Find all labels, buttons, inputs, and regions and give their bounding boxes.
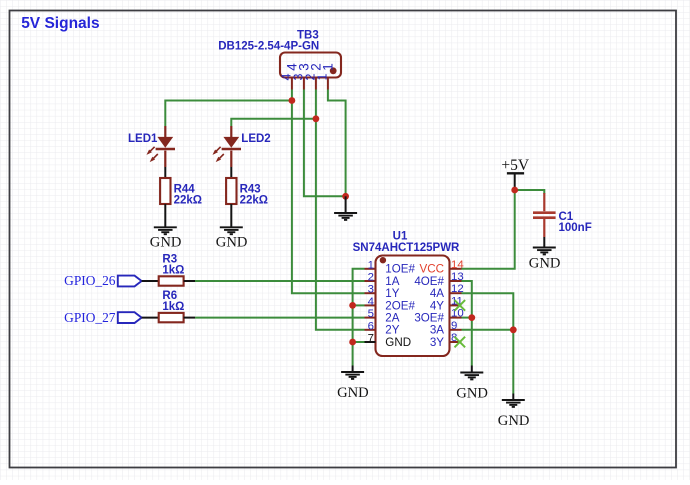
- wire TB3.3 down and right to mid ground: [304, 90, 346, 197]
- junction U1.7: [349, 339, 356, 346]
- svg-text:4A: 4A: [430, 287, 444, 300]
- svg-text:LED1: LED1: [128, 133, 158, 145]
- LED1 emission arrows: [148, 147, 154, 153]
- svg-text:22kΩ: 22kΩ: [174, 195, 202, 207]
- svg-text:DB125-2.54-4P-GN: DB125-2.54-4P-GN: [218, 41, 319, 53]
- resistor R6: [159, 313, 184, 322]
- wire U1.1/U1.4/U1.7 ground bus: [353, 269, 365, 366]
- ground (mid, unlabelled): [334, 212, 357, 214]
- ground under R44: [154, 226, 177, 228]
- svg-text:1: 1: [320, 63, 335, 71]
- svg-text:1A: 1A: [385, 275, 399, 288]
- svg-text:3A: 3A: [430, 324, 444, 337]
- svg-text:GND: GND: [150, 235, 182, 251]
- wire GPIO_26 to R3: [142, 280, 159, 282]
- wire LED2 to R43: [230, 167, 232, 178]
- wire junction to LED2: [231, 119, 316, 126]
- svg-text:GPIO_27: GPIO_27: [64, 310, 116, 325]
- junction U1.4: [349, 302, 356, 309]
- U1 right pin stubs 14-8: [450, 268, 462, 270]
- junction U1.9: [510, 326, 517, 333]
- svg-text:C1: C1: [559, 211, 574, 223]
- svg-text:4: 4: [368, 296, 374, 308]
- svg-text:1Y: 1Y: [385, 287, 399, 300]
- junction U1.10: [468, 314, 475, 321]
- svg-text:3: 3: [368, 284, 374, 296]
- svg-text:2Y: 2Y: [385, 324, 399, 337]
- svg-text:5: 5: [368, 308, 374, 320]
- LED LED2: [230, 126, 232, 137]
- svg-text:7: 7: [368, 333, 374, 345]
- svg-text:GPIO_26: GPIO_26: [64, 273, 116, 288]
- wire +5V to U1.14: [462, 190, 515, 269]
- wire LED1 to R44: [164, 167, 166, 178]
- wire R44 to ground: [164, 204, 166, 227]
- svg-text:4Y: 4Y: [430, 299, 444, 312]
- junction +5V: [511, 187, 518, 194]
- svg-text:1OE#: 1OE#: [385, 263, 415, 276]
- svg-text:GND: GND: [337, 385, 369, 401]
- svg-text:R44: R44: [174, 183, 196, 195]
- resistor R44: [160, 178, 170, 204]
- svg-text:100nF: 100nF: [559, 222, 592, 234]
- ground under R43: [220, 226, 243, 228]
- mid ground stub: [345, 196, 347, 212]
- svg-text:GND: GND: [456, 386, 488, 402]
- svg-text:VCC: VCC: [420, 263, 444, 276]
- wire TB3.1 jog right down to mid ground: [328, 90, 346, 197]
- junction TB3.1/TB3.3 ground: [342, 193, 349, 200]
- svg-text:2A: 2A: [385, 312, 399, 325]
- ground stub below (12/9 net): [512, 394, 514, 400]
- svg-text:1kΩ: 1kΩ: [162, 301, 184, 313]
- junction TB3.4/LED1: [289, 97, 296, 104]
- capacitor C1: [543, 193, 545, 211]
- svg-text:SN74AHCT125PWR: SN74AHCT125PWR: [353, 242, 460, 254]
- svg-text:3OE#: 3OE#: [414, 312, 444, 325]
- no-connect X pin 11: [455, 300, 466, 311]
- op-amp/buffer U1 body: [376, 256, 450, 357]
- wire TB3.2 down to LED2 junction and on to U1.6 (2Y net): [316, 90, 365, 330]
- wire U1.13/U1.10 ground bus: [462, 281, 472, 366]
- svg-text:5V Signals: 5V Signals: [21, 15, 99, 32]
- svg-text:6: 6: [368, 320, 374, 332]
- svg-text:2OE#: 2OE#: [385, 299, 415, 312]
- svg-text:GND: GND: [498, 413, 530, 429]
- ground under C1: [533, 247, 556, 249]
- svg-text:GND: GND: [385, 336, 411, 349]
- svg-text:2: 2: [368, 272, 374, 284]
- junction TB3.2/LED2: [313, 115, 320, 122]
- wire C1 to ground: [543, 237, 545, 247]
- svg-text:GND: GND: [216, 235, 248, 251]
- ground stub below U1 left: [352, 366, 354, 372]
- wire R3 to U1.2: [184, 280, 195, 282]
- ground (far right bottom): [502, 399, 525, 401]
- connector TB3 body: [280, 53, 341, 78]
- svg-text:4OE#: 4OE#: [414, 275, 444, 288]
- svg-text:R43: R43: [240, 183, 261, 195]
- wire U1.12/U1.9 ground bus: [462, 293, 514, 393]
- svg-text:3Y: 3Y: [430, 336, 444, 349]
- svg-text:9: 9: [451, 320, 457, 332]
- U1 left pin stubs 1-7: [365, 268, 376, 270]
- svg-text:+5V: +5V: [501, 157, 529, 174]
- wire TB3.4 down to LED1 junction and on to U1.3 (1Y net): [292, 90, 365, 294]
- svg-text:TB3: TB3: [297, 29, 319, 41]
- no-connect X pin 8: [455, 337, 466, 348]
- svg-text:22kΩ: 22kΩ: [240, 195, 268, 207]
- LED2 emission arrows: [214, 147, 220, 153]
- wire junction to LED1: [165, 101, 292, 127]
- svg-text:1: 1: [368, 259, 374, 271]
- svg-text:GND: GND: [529, 256, 561, 272]
- svg-text:1kΩ: 1kΩ: [162, 264, 184, 276]
- TB3 pin stubs 4,3,2,1: [291, 78, 293, 90]
- ground (left of U1 bottom): [341, 371, 364, 373]
- wire R43 to ground: [230, 204, 232, 227]
- wire GPIO_27 to R6: [142, 317, 159, 319]
- resistor R43: [226, 178, 236, 204]
- ground stub below (13/10 net): [471, 366, 473, 373]
- svg-text:1: 1: [316, 73, 330, 80]
- svg-text:LED2: LED2: [241, 133, 270, 145]
- LED LED1: [164, 126, 166, 137]
- resistor R3: [159, 276, 184, 285]
- wire R6 to U1.5: [184, 317, 195, 319]
- wire +5V to C1: [515, 190, 545, 194]
- ground (U1 right bottom): [460, 372, 483, 374]
